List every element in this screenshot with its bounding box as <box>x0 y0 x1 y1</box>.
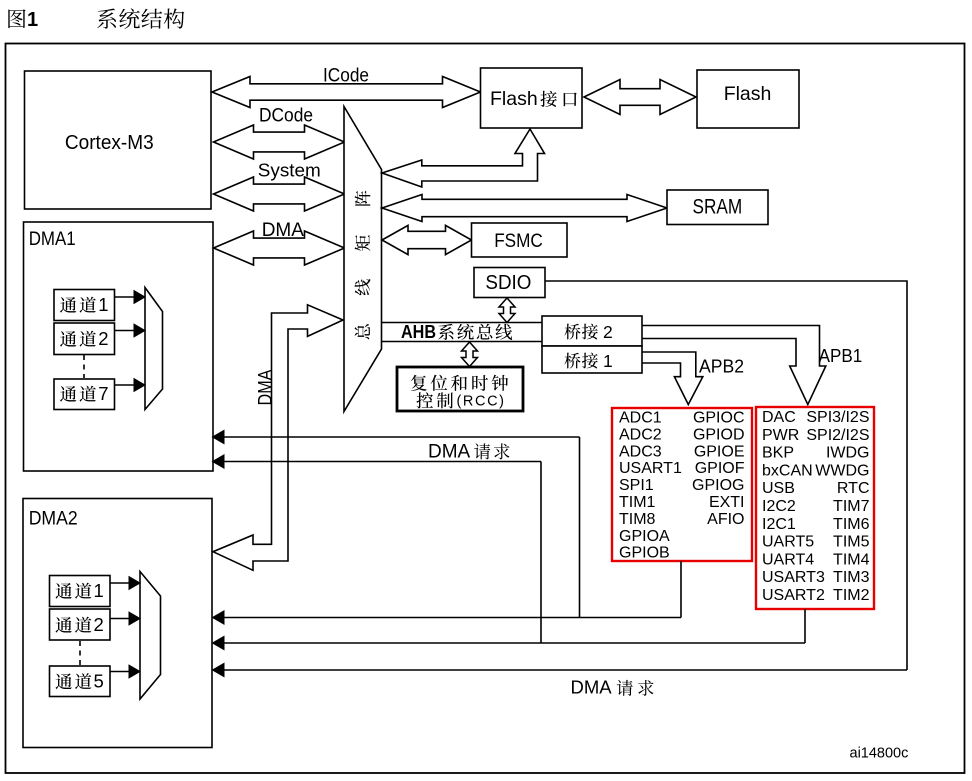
svg-text:GPIOA: GPIOA <box>619 528 670 545</box>
svg-text:APB2: APB2 <box>699 357 744 377</box>
svg-text:USART3: USART3 <box>762 569 825 586</box>
svg-text:GPIOB: GPIOB <box>619 545 670 562</box>
svg-text:SRAM: SRAM <box>693 194 743 218</box>
svg-text:5: 5 <box>94 671 104 692</box>
DMA1 channel1 arrow <box>115 290 147 304</box>
svg-text:USART1: USART1 <box>619 460 682 477</box>
svg-text:UART5: UART5 <box>762 534 814 551</box>
svg-text:DMA: DMA <box>256 369 277 405</box>
svg-text:SPI3/I2S: SPI3/I2S <box>806 409 869 426</box>
title 图1 <box>8 9 38 31</box>
svg-text:BKP: BKP <box>762 445 794 462</box>
svg-text:AHB: AHB <box>401 321 436 342</box>
svg-text:ADC2: ADC2 <box>619 426 662 443</box>
svg-text:System: System <box>258 160 321 181</box>
DMA1 channel2 arrow <box>115 323 147 337</box>
bus arrow DMA <box>214 220 345 265</box>
APB1 peripherals red box <box>756 407 874 609</box>
svg-text:2: 2 <box>98 328 108 349</box>
wire bridge1 to APB2 arrow <box>642 352 703 405</box>
block Flash 接口 <box>481 68 583 128</box>
svg-text:TIM3: TIM3 <box>833 569 870 586</box>
hollow arrow bus-matrix to Flash interface <box>382 129 545 187</box>
hollow arrow bus-matrix to DMA2 (DMA) <box>213 305 343 571</box>
arrow bus-matrix to FSMC <box>382 225 472 254</box>
svg-text:UART4: UART4 <box>762 551 814 568</box>
DMA1 channel 2 <box>54 323 115 355</box>
svg-text:GPIOF: GPIOF <box>695 460 745 477</box>
svg-text:Flash: Flash <box>724 83 772 105</box>
block SRAM <box>667 190 768 225</box>
block SDIO <box>474 268 545 298</box>
DMA2 channel5 arrow <box>110 664 141 678</box>
svg-text:DMA1: DMA1 <box>29 229 76 250</box>
bus arrow ICode <box>212 66 481 108</box>
arrow SDIO to AHB <box>499 298 515 323</box>
block DMA1 <box>24 222 214 471</box>
svg-text:DMA: DMA <box>262 220 305 241</box>
svg-text:PWR: PWR <box>762 427 799 444</box>
label DMA 请求 upper <box>428 442 510 463</box>
arrowhead DMA1 request 2 <box>212 454 225 469</box>
svg-text:bxCAN: bxCAN <box>762 462 813 479</box>
svg-text:ADC1: ADC1 <box>619 410 662 427</box>
svg-text:FSMC: FSMC <box>494 230 543 252</box>
svg-text:GPIOD: GPIOD <box>693 426 745 443</box>
wire APB1 box to DMA request net <box>214 462 805 644</box>
block RCC 复位和时钟控制 <box>397 367 523 411</box>
svg-text:APB1: APB1 <box>819 346 863 366</box>
svg-text:(RCC): (RCC) <box>457 394 505 410</box>
wire APB2 box to DMA request net <box>214 437 681 618</box>
svg-text:TIM4: TIM4 <box>833 551 870 568</box>
svg-text:IWDG: IWDG <box>826 445 870 462</box>
title 系统结构 <box>97 8 184 28</box>
block bridge 1 桥接1 <box>542 346 642 373</box>
block Flash <box>697 70 799 128</box>
DMA1 channel7 arrow <box>115 378 147 392</box>
svg-text:TIM2: TIM2 <box>833 587 870 604</box>
svg-text:TIM7: TIM7 <box>833 498 870 515</box>
block Cortex-M3 <box>25 71 212 209</box>
svg-text:USB: USB <box>762 480 795 497</box>
wire SDIO to right side <box>545 281 907 670</box>
bus arrow System <box>214 160 345 212</box>
DMA2 channel 1 <box>50 576 111 607</box>
svg-text:DMA2: DMA2 <box>29 509 78 530</box>
svg-text:1: 1 <box>98 294 108 315</box>
bus matrix trapezoid 总线矩阵 <box>344 107 382 412</box>
svg-text:1: 1 <box>94 580 104 601</box>
svg-text:2: 2 <box>94 614 104 635</box>
arrowhead DMA2 request 3 <box>212 663 225 678</box>
svg-text:WWDG: WWDG <box>815 462 869 479</box>
DMA1 channel 7 <box>54 379 115 410</box>
DMA2 channel 2 <box>50 609 111 640</box>
DMA1 channel dots <box>83 355 85 378</box>
wire bridge2 to APB1 arrow <box>642 326 826 405</box>
arrowhead DMA2 request 1 <box>212 610 225 625</box>
AHB system bus lines <box>382 321 543 342</box>
svg-text:EXTI: EXTI <box>709 494 745 511</box>
arrowhead DMA2 request 2 <box>212 636 225 651</box>
DMA2 mux <box>140 572 161 700</box>
label DMA 请求 lower <box>571 677 654 698</box>
arrowhead DMA1 request 1 <box>212 430 225 445</box>
svg-text:SPI1: SPI1 <box>619 477 654 494</box>
svg-text:TIM8: TIM8 <box>619 511 656 528</box>
svg-text:Flash: Flash <box>490 88 538 110</box>
DMA2 channel 5 <box>50 666 111 697</box>
svg-text:1: 1 <box>27 9 38 31</box>
svg-text:2: 2 <box>603 322 613 342</box>
DMA1 mux <box>145 288 163 410</box>
svg-text:1: 1 <box>603 351 613 371</box>
arrow bus-matrix to SRAM <box>382 195 667 222</box>
svg-text:SDIO: SDIO <box>485 272 531 294</box>
svg-text:ai14800c: ai14800c <box>850 746 909 762</box>
svg-text:TIM6: TIM6 <box>833 516 870 533</box>
DMA1 channel 1 <box>54 290 115 321</box>
bus arrow DCode <box>214 106 345 159</box>
svg-text:DAC: DAC <box>762 409 796 426</box>
block bridge 2 桥接2 <box>542 316 642 346</box>
svg-text:GPIOE: GPIOE <box>694 443 745 460</box>
block DMA2 <box>23 499 212 748</box>
svg-text:DMA: DMA <box>571 677 613 698</box>
svg-text:TIM1: TIM1 <box>619 494 656 511</box>
svg-text:I2C1: I2C1 <box>762 516 796 533</box>
svg-text:ADC3: ADC3 <box>619 443 662 460</box>
svg-text:TIM5: TIM5 <box>833 534 870 551</box>
svg-text:I2C2: I2C2 <box>762 498 796 515</box>
svg-text:USART2: USART2 <box>762 587 825 604</box>
svg-text:Cortex-M3: Cortex-M3 <box>65 132 154 154</box>
svg-text:AFIO: AFIO <box>707 511 744 528</box>
arrow AHB to RCC <box>462 342 478 367</box>
svg-text:DMA: DMA <box>428 442 471 463</box>
block FSMC <box>472 223 568 257</box>
svg-text:SPI2/I2S: SPI2/I2S <box>806 427 869 444</box>
svg-text:ICode: ICode <box>323 66 369 87</box>
wire SDIO request to DMA2 <box>214 669 907 671</box>
svg-text:RTC: RTC <box>837 480 870 497</box>
arrow Flash interface to Flash <box>584 80 696 115</box>
svg-text:7: 7 <box>98 383 108 404</box>
APB2 peripherals red box <box>612 408 752 562</box>
svg-text:GPIOC: GPIOC <box>693 410 745 427</box>
svg-text:DCode: DCode <box>259 106 313 127</box>
DMA2 channel1 arrow <box>110 576 141 590</box>
svg-text:GPIOG: GPIOG <box>692 477 744 494</box>
DMA2 channel dots <box>79 641 81 665</box>
DMA2 channel2 arrow <box>110 611 141 625</box>
